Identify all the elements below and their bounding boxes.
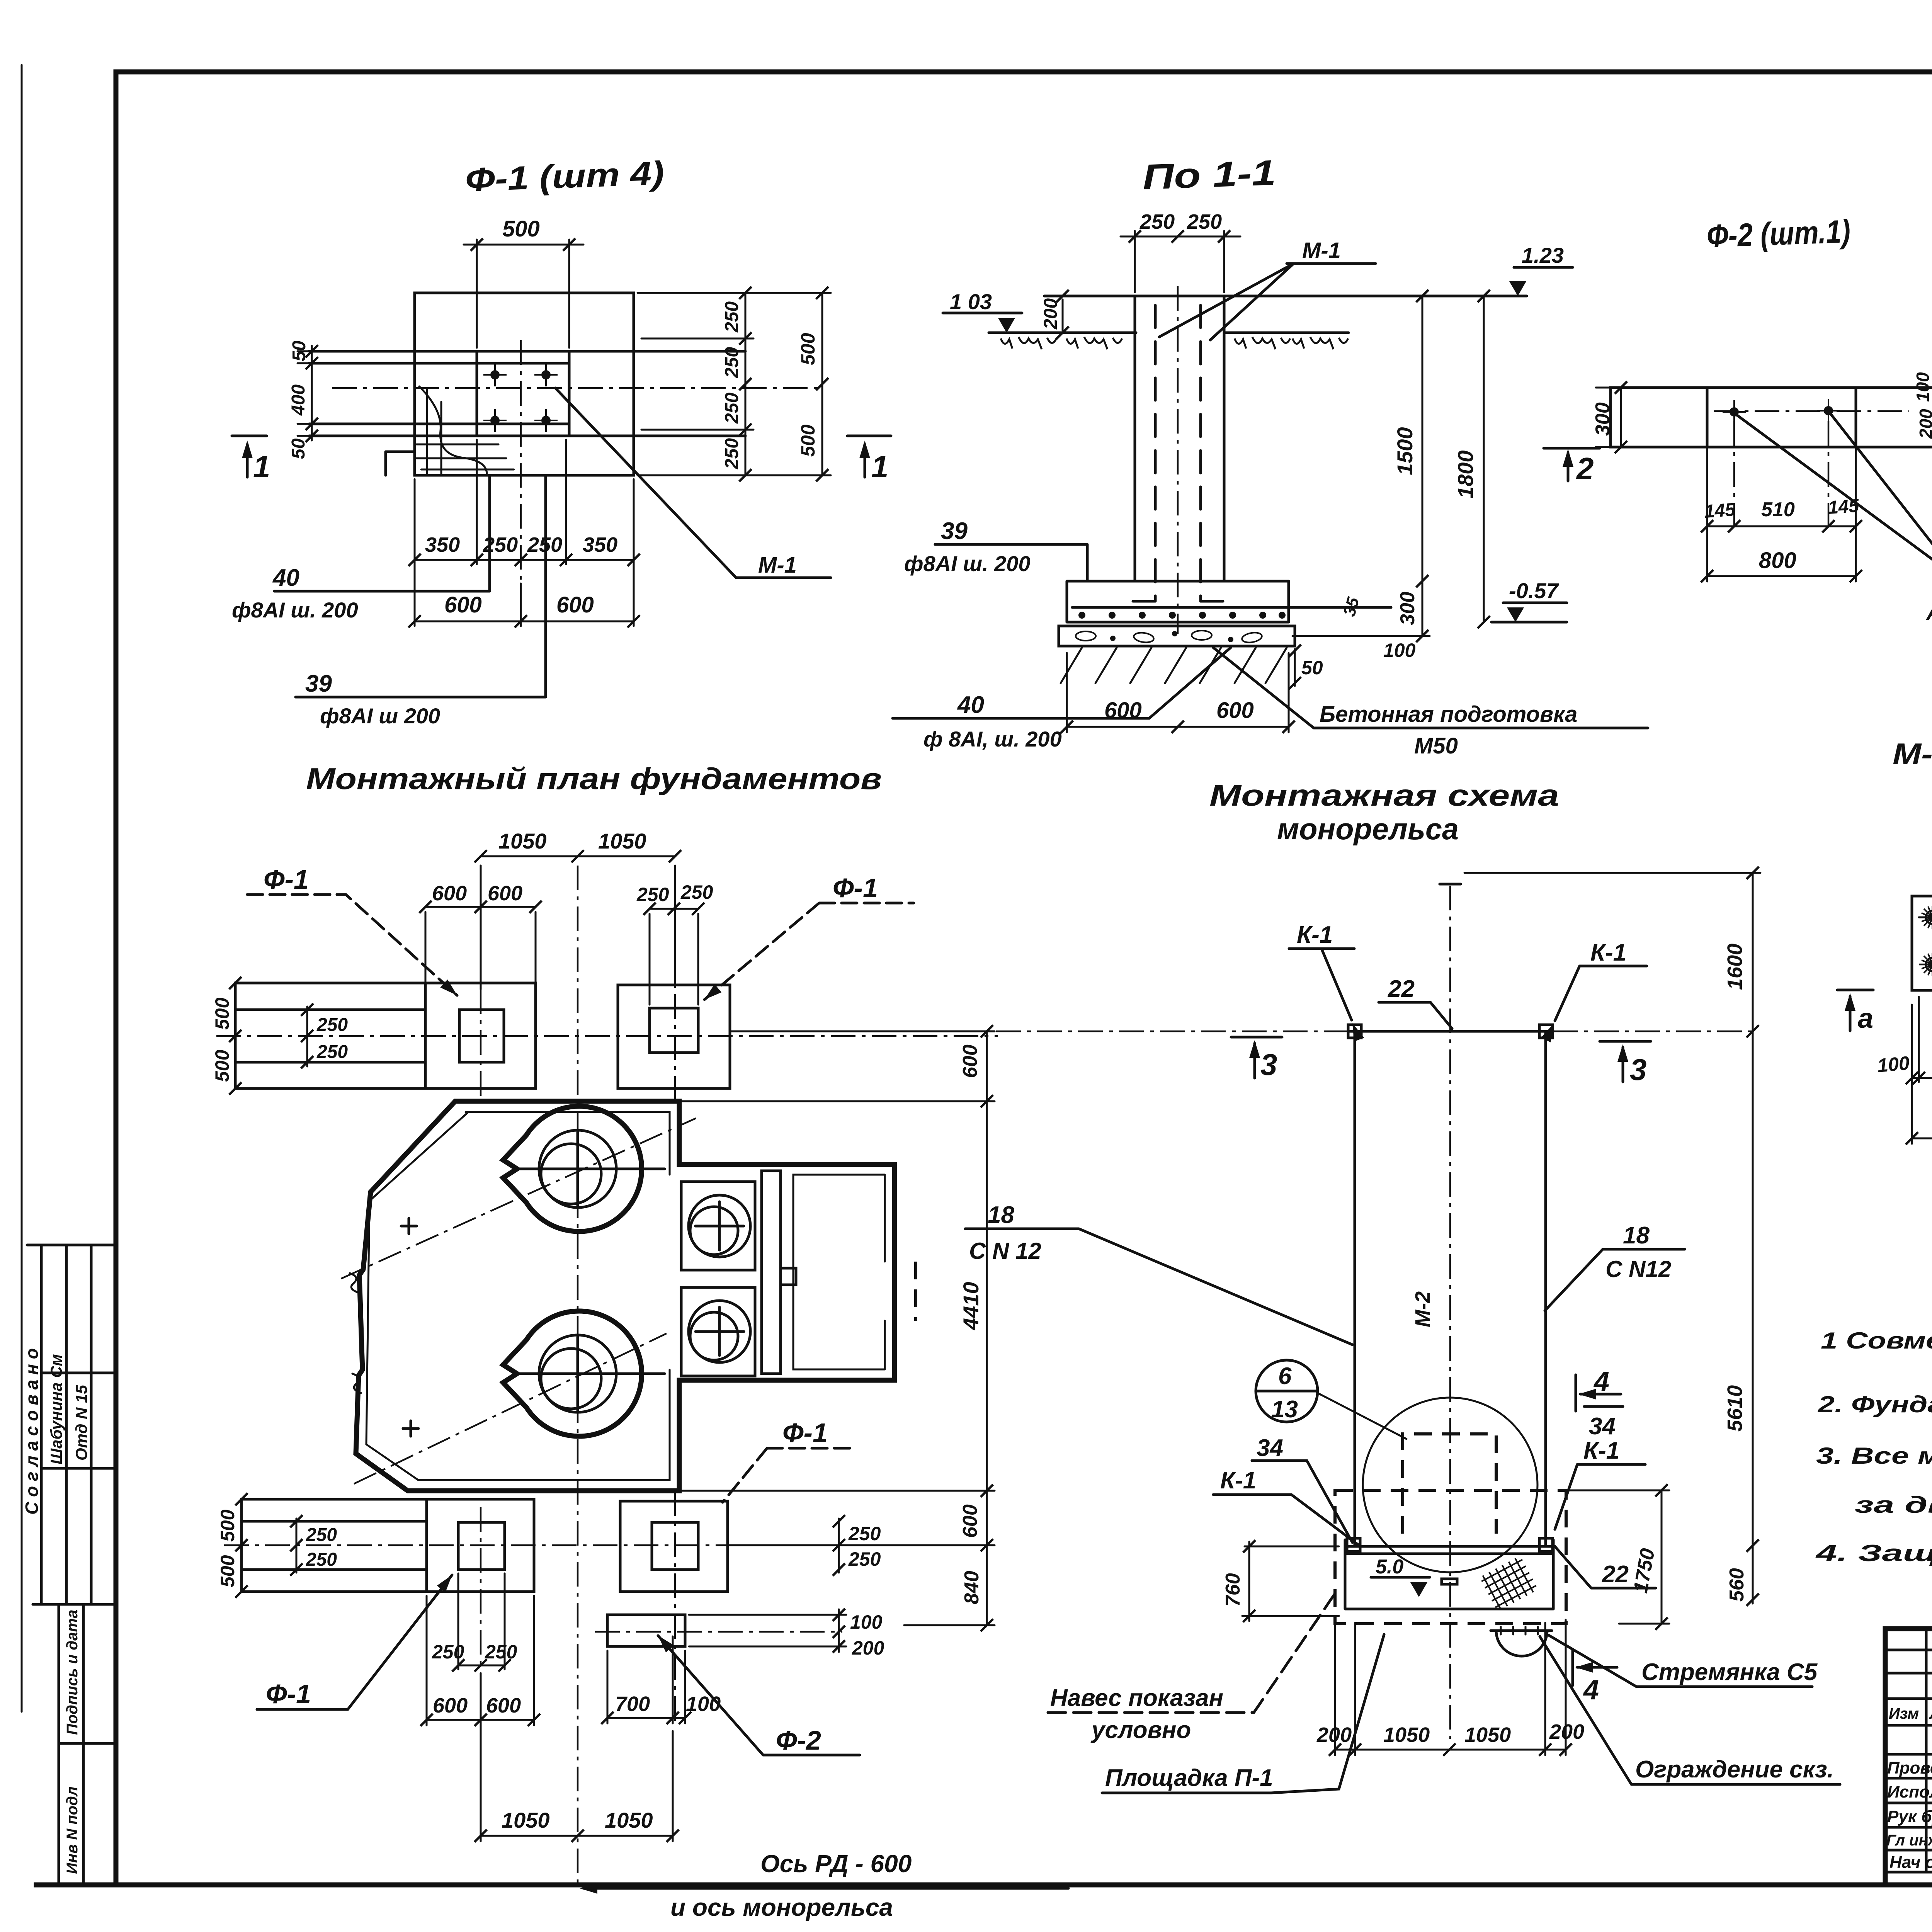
svg-text:600: 600 [556, 592, 594, 617]
svg-text:а: а [1858, 1003, 1873, 1034]
svg-text:4410: 4410 [959, 1282, 983, 1330]
right dim column 1600 5610 560 [1464, 873, 1760, 1604]
top dim 500 [464, 240, 583, 348]
svg-text:М-1: М-1 [758, 553, 797, 578]
svg-text:М-2: М-2 [1411, 1291, 1434, 1327]
svg-text:200: 200 [1916, 409, 1932, 439]
section mark 1 right [847, 436, 891, 477]
svg-text:200: 200 [1549, 1720, 1584, 1743]
dim 700 100 [607, 1636, 685, 1723]
svg-text:250: 250 [636, 884, 669, 905]
section 3 right [1600, 1041, 1651, 1082]
inner column pocket [459, 1010, 504, 1062]
korob dashed rect [1403, 1434, 1496, 1534]
svg-text:250: 250 [316, 1042, 348, 1062]
svg-text:39: 39 [941, 518, 968, 544]
svg-text:600: 600 [1216, 698, 1254, 723]
svg-text:ф8АI ш. 200: ф8АI ш. 200 [904, 551, 1031, 576]
svg-text:Подпись и дата: Подпись и дата [64, 1610, 81, 1735]
section 4 lower [1573, 1649, 1617, 1685]
title block outer [1885, 1629, 1932, 1885]
right dim 500x2 [821, 293, 823, 475]
svg-text:С N 12: С N 12 [969, 1238, 1041, 1264]
svg-text:250: 250 [680, 881, 713, 903]
break curve [419, 386, 487, 475]
svg-text:350: 350 [425, 533, 460, 556]
svg-text:760: 760 [1222, 1573, 1244, 1607]
svg-text:6: 6 [1278, 1363, 1292, 1389]
top chamber teardrop [503, 1106, 642, 1231]
svg-text:600: 600 [432, 882, 467, 905]
svg-text:Ф-2: Ф-2 [776, 1725, 821, 1755]
column center line [1177, 286, 1179, 634]
svg-text:145: 145 [1827, 495, 1860, 518]
left stamp strip: upper box [27, 1245, 116, 1604]
svg-text:за два раза: за два раза [1855, 1492, 1932, 1518]
bottom-right footing [620, 1501, 728, 1592]
svg-text:1: 1 [253, 449, 270, 484]
plate plan [1912, 896, 1932, 990]
dim 250 250 right of footing [838, 1519, 840, 1573]
right dim column 600 4410 600 840 [679, 1031, 995, 1625]
svg-text:Ф-1 (шт 4): Ф-1 (шт 4) [464, 155, 665, 199]
svg-text:500: 500 [211, 997, 233, 1030]
bottom chamber teardrop [503, 1311, 642, 1436]
svg-text:250: 250 [306, 1525, 337, 1545]
svg-text:560: 560 [1726, 1568, 1748, 1602]
bottom dims 600 600 [1067, 653, 1289, 732]
svg-text:1050: 1050 [1464, 1723, 1511, 1747]
svg-text:Бетонная подготовка: Бетонная подготовка [1320, 702, 1577, 727]
svg-text:145: 145 [1704, 499, 1736, 522]
svg-text:840: 840 [961, 1571, 983, 1604]
svg-text:С N12: С N12 [1605, 1256, 1671, 1282]
svg-text:Навес показан: Навес показан [1050, 1685, 1223, 1711]
right dim ladder 250x4 [638, 293, 831, 475]
svg-text:Ф-2 (шт.1): Ф-2 (шт.1) [1706, 213, 1851, 254]
svg-text:4: 4 [1593, 1366, 1609, 1397]
svg-text:50: 50 [289, 340, 310, 361]
leader M-1 [555, 388, 831, 578]
svg-text:К-1: К-1 [1590, 939, 1626, 966]
left dims 50 400 50 [298, 346, 471, 440]
svg-text:22: 22 [1602, 1561, 1629, 1588]
svg-text:Изм: Изм [1889, 1705, 1919, 1722]
svg-text:2: 2 [1576, 451, 1594, 486]
svg-text:600: 600 [433, 1694, 468, 1717]
circled 6/13 mark [1256, 1360, 1318, 1422]
svg-text:Монтажный план фундаментов: Монтажный план фундаментов [306, 762, 882, 796]
svg-text:100: 100 [1913, 372, 1932, 402]
bottom-left footing composite [241, 1499, 534, 1592]
foundation edges inside bar [1707, 388, 1856, 447]
svg-text:1050: 1050 [502, 1808, 550, 1832]
svg-text:С о г л а с о в а н о: С о г л а с о в а н о [22, 1348, 42, 1515]
svg-text:800: 800 [1759, 548, 1796, 573]
svg-text:Проверил: Проверил [1887, 1759, 1932, 1777]
svg-text:300: 300 [1592, 402, 1614, 436]
svg-text:Ф-1: Ф-1 [782, 1418, 828, 1448]
machine room inner [793, 1175, 885, 1369]
svg-text:1600: 1600 [1723, 944, 1747, 990]
svg-text:510: 510 [1761, 498, 1795, 521]
svg-text:500: 500 [217, 1509, 238, 1542]
svg-text:500: 500 [502, 216, 540, 241]
svg-text:К-1: К-1 [1297, 922, 1333, 948]
corner rebar grid [417, 388, 514, 474]
soil hatch [1001, 337, 1056, 349]
svg-text:1800: 1800 [1453, 450, 1478, 498]
svg-text:250: 250 [316, 1015, 348, 1035]
hatch under lean concrete [1061, 648, 1287, 683]
dim 1750 [1570, 1490, 1669, 1624]
svg-text:250: 250 [722, 301, 742, 333]
svg-text:500: 500 [217, 1555, 238, 1587]
svg-text:Рук бриг: Рук бриг [1887, 1807, 1932, 1826]
joint squares bottom [1347, 1538, 1360, 1551]
bolts with star [1921, 906, 1932, 929]
svg-text:5610: 5610 [1723, 1385, 1747, 1432]
section 4 upper [1576, 1375, 1621, 1411]
top dim 250 250 [1121, 231, 1240, 292]
ladder stremyanka [1496, 1631, 1547, 1656]
svg-text:1050: 1050 [1383, 1723, 1430, 1747]
svg-text:200: 200 [852, 1637, 884, 1659]
svg-text:250: 250 [483, 533, 518, 556]
left stamp strip: lower box [59, 1604, 116, 1885]
platform P-1 [1345, 1545, 1553, 1548]
title block verticals [1926, 1629, 1932, 1885]
dim 600 600 [425, 907, 536, 981]
bolt center lines [1919, 917, 1932, 964]
svg-text:40: 40 [957, 692, 984, 718]
joint squares top [1348, 1025, 1361, 1038]
svg-text:500: 500 [797, 424, 819, 457]
dim 250 250 strip bottom [296, 1519, 298, 1573]
svg-text:18: 18 [988, 1202, 1014, 1228]
section a-a marks [1837, 990, 1873, 1031]
dims 100 300 100 below plate [1912, 997, 1932, 1082]
svg-text:250: 250 [1139, 210, 1175, 233]
svg-text:условно: условно [1090, 1717, 1191, 1743]
svg-text:Монтажная схема: Монтажная схема [1209, 778, 1559, 812]
svg-text:100: 100 [1876, 1052, 1910, 1077]
svg-text:600: 600 [959, 1504, 981, 1538]
anchor bolts [1723, 400, 1746, 423]
dim 200 left of column [1062, 299, 1064, 330]
svg-text:250: 250 [848, 1548, 881, 1570]
svg-text:100: 100 [850, 1611, 883, 1633]
ground line left / right [989, 332, 1349, 334]
svg-text:200: 200 [1041, 298, 1061, 330]
svg-text:По 1-1: По 1-1 [1142, 153, 1276, 197]
bottom dim row 600 600 [415, 621, 634, 622]
dim 250 250 strip [306, 1007, 308, 1066]
top chamber circles [539, 1130, 616, 1207]
basin outer wall [356, 1101, 895, 1491]
beam strip lines [309, 351, 745, 436]
dim 760 [1242, 1542, 1339, 1621]
basin left wall break marks [350, 1273, 361, 1393]
svg-text:3: 3 [1630, 1053, 1646, 1087]
svg-text:Анкерные болты ф 12АI: Анкерные болты ф 12АI [1925, 600, 1932, 625]
svg-text:250: 250 [485, 1641, 517, 1663]
svg-text:Ось РД - 600: Ось РД - 600 [760, 1850, 912, 1878]
svg-text:400: 400 [288, 384, 309, 416]
dims 145 510 145 [1707, 526, 1856, 527]
dim 500 500 left [229, 977, 241, 989]
svg-text:Шабунина См: Шабунина См [47, 1354, 65, 1464]
sheet outer thin left line [21, 65, 23, 1712]
grid hatch (reshetka) [1480, 1556, 1539, 1612]
monorail stop bracket [1442, 1579, 1457, 1584]
columns K-1 [1355, 1031, 1546, 1546]
svg-text:ф8АI ш 200: ф8АI ш 200 [320, 704, 440, 728]
dim 250 250 inner [458, 1573, 505, 1669]
svg-text:-0.57: -0.57 [1509, 578, 1559, 603]
dim 50 lean [1294, 649, 1296, 686]
svg-text:Площадка П-1: Площадка П-1 [1105, 1765, 1273, 1791]
svg-text:Гл инж пр: Гл инж пр [1886, 1832, 1932, 1849]
svg-text:ф 8АI, ш. 200: ф 8АI, ш. 200 [923, 727, 1062, 751]
svg-text:250: 250 [306, 1549, 337, 1570]
corner step [386, 452, 415, 475]
svg-text:34: 34 [1257, 1435, 1283, 1461]
svg-text:50: 50 [1301, 657, 1323, 679]
svg-text:3: 3 [1260, 1048, 1277, 1082]
svg-text:Исполнит: Исполнит [1887, 1782, 1932, 1801]
dim 500 [1912, 1005, 1932, 1144]
channel bar outline [1611, 388, 1932, 447]
bottom rebar dots [1078, 612, 1286, 619]
svg-text:Ф-1: Ф-1 [266, 1679, 311, 1709]
floor top line [1044, 295, 1527, 298]
plate M-1 sides [477, 351, 569, 436]
svg-text:50: 50 [288, 438, 309, 459]
canopy dashed rect [1335, 1490, 1566, 1624]
diagonal centerlines [341, 1118, 696, 1279]
svg-text:39: 39 [305, 670, 332, 697]
bottom dim row 200 1050 1050 200 [1335, 1620, 1566, 1755]
svg-text:1050: 1050 [605, 1808, 653, 1832]
svg-text:40: 40 [272, 565, 299, 591]
foundation square outline [415, 293, 634, 475]
svg-text:2. Фундаменты Ф-1 и Ф-2 вы: 2. Фундаменты Ф-1 и Ф-2 выполнять из бет… [1818, 1391, 1932, 1417]
svg-text:Ф-1: Ф-1 [264, 864, 309, 895]
svg-text:Ограждение скз.: Ограждение скз. [1635, 1756, 1834, 1783]
svg-text:200: 200 [1316, 1723, 1352, 1747]
column [1135, 296, 1224, 581]
svg-text:Стремянка С5: Стремянка С5 [1641, 1659, 1818, 1685]
svg-text:Отд N 15: Отд N 15 [72, 1385, 90, 1461]
svg-text:монорельса: монорельса [1277, 812, 1459, 846]
svg-text:1: 1 [871, 449, 889, 484]
svg-text:1 Совместно с данным чертеж: 1 Совместно с данным чертежом см листы К… [1821, 1328, 1932, 1354]
svg-text:и ось монорельса: и ось монорельса [670, 1893, 893, 1921]
svg-text:1500: 1500 [1393, 427, 1417, 475]
right dim 1800 [1483, 296, 1485, 622]
svg-text:250: 250 [722, 393, 742, 424]
center lines [520, 340, 522, 582]
top-left footing composite [235, 983, 536, 1088]
bolt center lines [1714, 410, 1909, 412]
svg-text:250: 250 [1187, 210, 1222, 233]
svg-text:500: 500 [797, 333, 819, 365]
svg-text:М50: М50 [1414, 733, 1458, 759]
svg-text:250: 250 [848, 1523, 881, 1544]
dim 250 250 top right [650, 909, 698, 1005]
svg-text:600: 600 [444, 592, 482, 617]
dim 500 500 left bottom [235, 1493, 248, 1505]
right dims 1500 / 300 [1293, 296, 1430, 636]
svg-text:13: 13 [1271, 1396, 1298, 1423]
center lines [216, 1035, 998, 1037]
big circle drobilka [1363, 1398, 1537, 1572]
main axis vertical [577, 866, 579, 1888]
svg-text:22: 22 [1388, 976, 1415, 1002]
section mark 1 left [232, 436, 267, 477]
svg-text:250: 250 [432, 1641, 464, 1663]
svg-text:100: 100 [686, 1692, 721, 1716]
svg-text:600: 600 [488, 882, 522, 905]
svg-text:4: 4 [1583, 1675, 1599, 1706]
svg-text:К-1: К-1 [1220, 1467, 1256, 1494]
monorail beam M-2 top [1349, 1030, 1553, 1033]
svg-text:100: 100 [1383, 639, 1416, 661]
left dim 300 [1596, 388, 1621, 447]
bottom dim row 350 250 250 350 [415, 440, 634, 626]
right small cells [681, 1182, 755, 1270]
svg-text:1050: 1050 [498, 829, 547, 853]
svg-text:4. Защитный слой бетона 35м: 4. Защитный слой бетона 35мм [1815, 1540, 1932, 1566]
extension verticals below [1707, 447, 1856, 582]
column dashed rebars with hooks [1132, 305, 1224, 601]
svg-text:Нач отд: Нач отд [1889, 1853, 1932, 1872]
title block horizontals left part [1885, 1650, 1932, 1872]
svg-text:18: 18 [1623, 1222, 1650, 1249]
section mark 2 left of F-2 plan [1544, 448, 1600, 481]
svg-text:1 03: 1 03 [950, 289, 992, 314]
monorail bar vertical [762, 1171, 781, 1374]
lean concrete strip [1059, 626, 1295, 646]
rebar mesh line [1072, 606, 1391, 609]
center axis [1449, 886, 1451, 1739]
leader 19 ankernye bolty [1736, 413, 1932, 581]
dim 1050 1050 top [481, 856, 675, 989]
dim 400 [1919, 896, 1932, 990]
dim 800 [1707, 575, 1856, 577]
svg-text:350: 350 [583, 533, 617, 556]
svg-text:Ф-1: Ф-1 [833, 873, 878, 903]
svg-text:3. Все металлоконструкции ок: 3. Все металлоконструкции окрасить лаком… [1816, 1443, 1932, 1469]
svg-text:5.0: 5.0 [1376, 1556, 1403, 1578]
svg-text:М-1 (шт 4): М-1 (шт 4) [1893, 737, 1932, 771]
svg-text:34: 34 [1589, 1413, 1616, 1440]
bottom chamber circles [539, 1335, 616, 1412]
dim 1050 1050 bottom [481, 1673, 673, 1841]
svg-text:1.23: 1.23 [1522, 243, 1564, 267]
section 3 left [1231, 1037, 1282, 1078]
plate bolts [483, 363, 507, 386]
svg-text:250: 250 [722, 347, 742, 378]
F-2 strip footing [607, 1615, 685, 1646]
svg-text:250: 250 [722, 438, 742, 469]
svg-text:600: 600 [486, 1694, 521, 1717]
svg-text:К-1: К-1 [1583, 1437, 1619, 1464]
basin inner wall [366, 1112, 670, 1480]
svg-text:700: 700 [615, 1692, 650, 1716]
svg-text:300: 300 [1396, 592, 1419, 625]
dim 600 600 bottom [427, 1596, 534, 1725]
svg-text:500: 500 [211, 1049, 233, 1082]
footing [1067, 581, 1289, 622]
top-right footing [618, 985, 730, 1088]
svg-text:М-1: М-1 [1302, 238, 1341, 263]
svg-text:600: 600 [959, 1044, 981, 1078]
svg-text:Инв N подл: Инв N подл [64, 1786, 81, 1874]
svg-text:1050: 1050 [598, 829, 646, 853]
svg-text:ф8АI ш. 200: ф8АI ш. 200 [232, 598, 358, 622]
dims 100 200 right of F-2 [689, 1609, 846, 1652]
